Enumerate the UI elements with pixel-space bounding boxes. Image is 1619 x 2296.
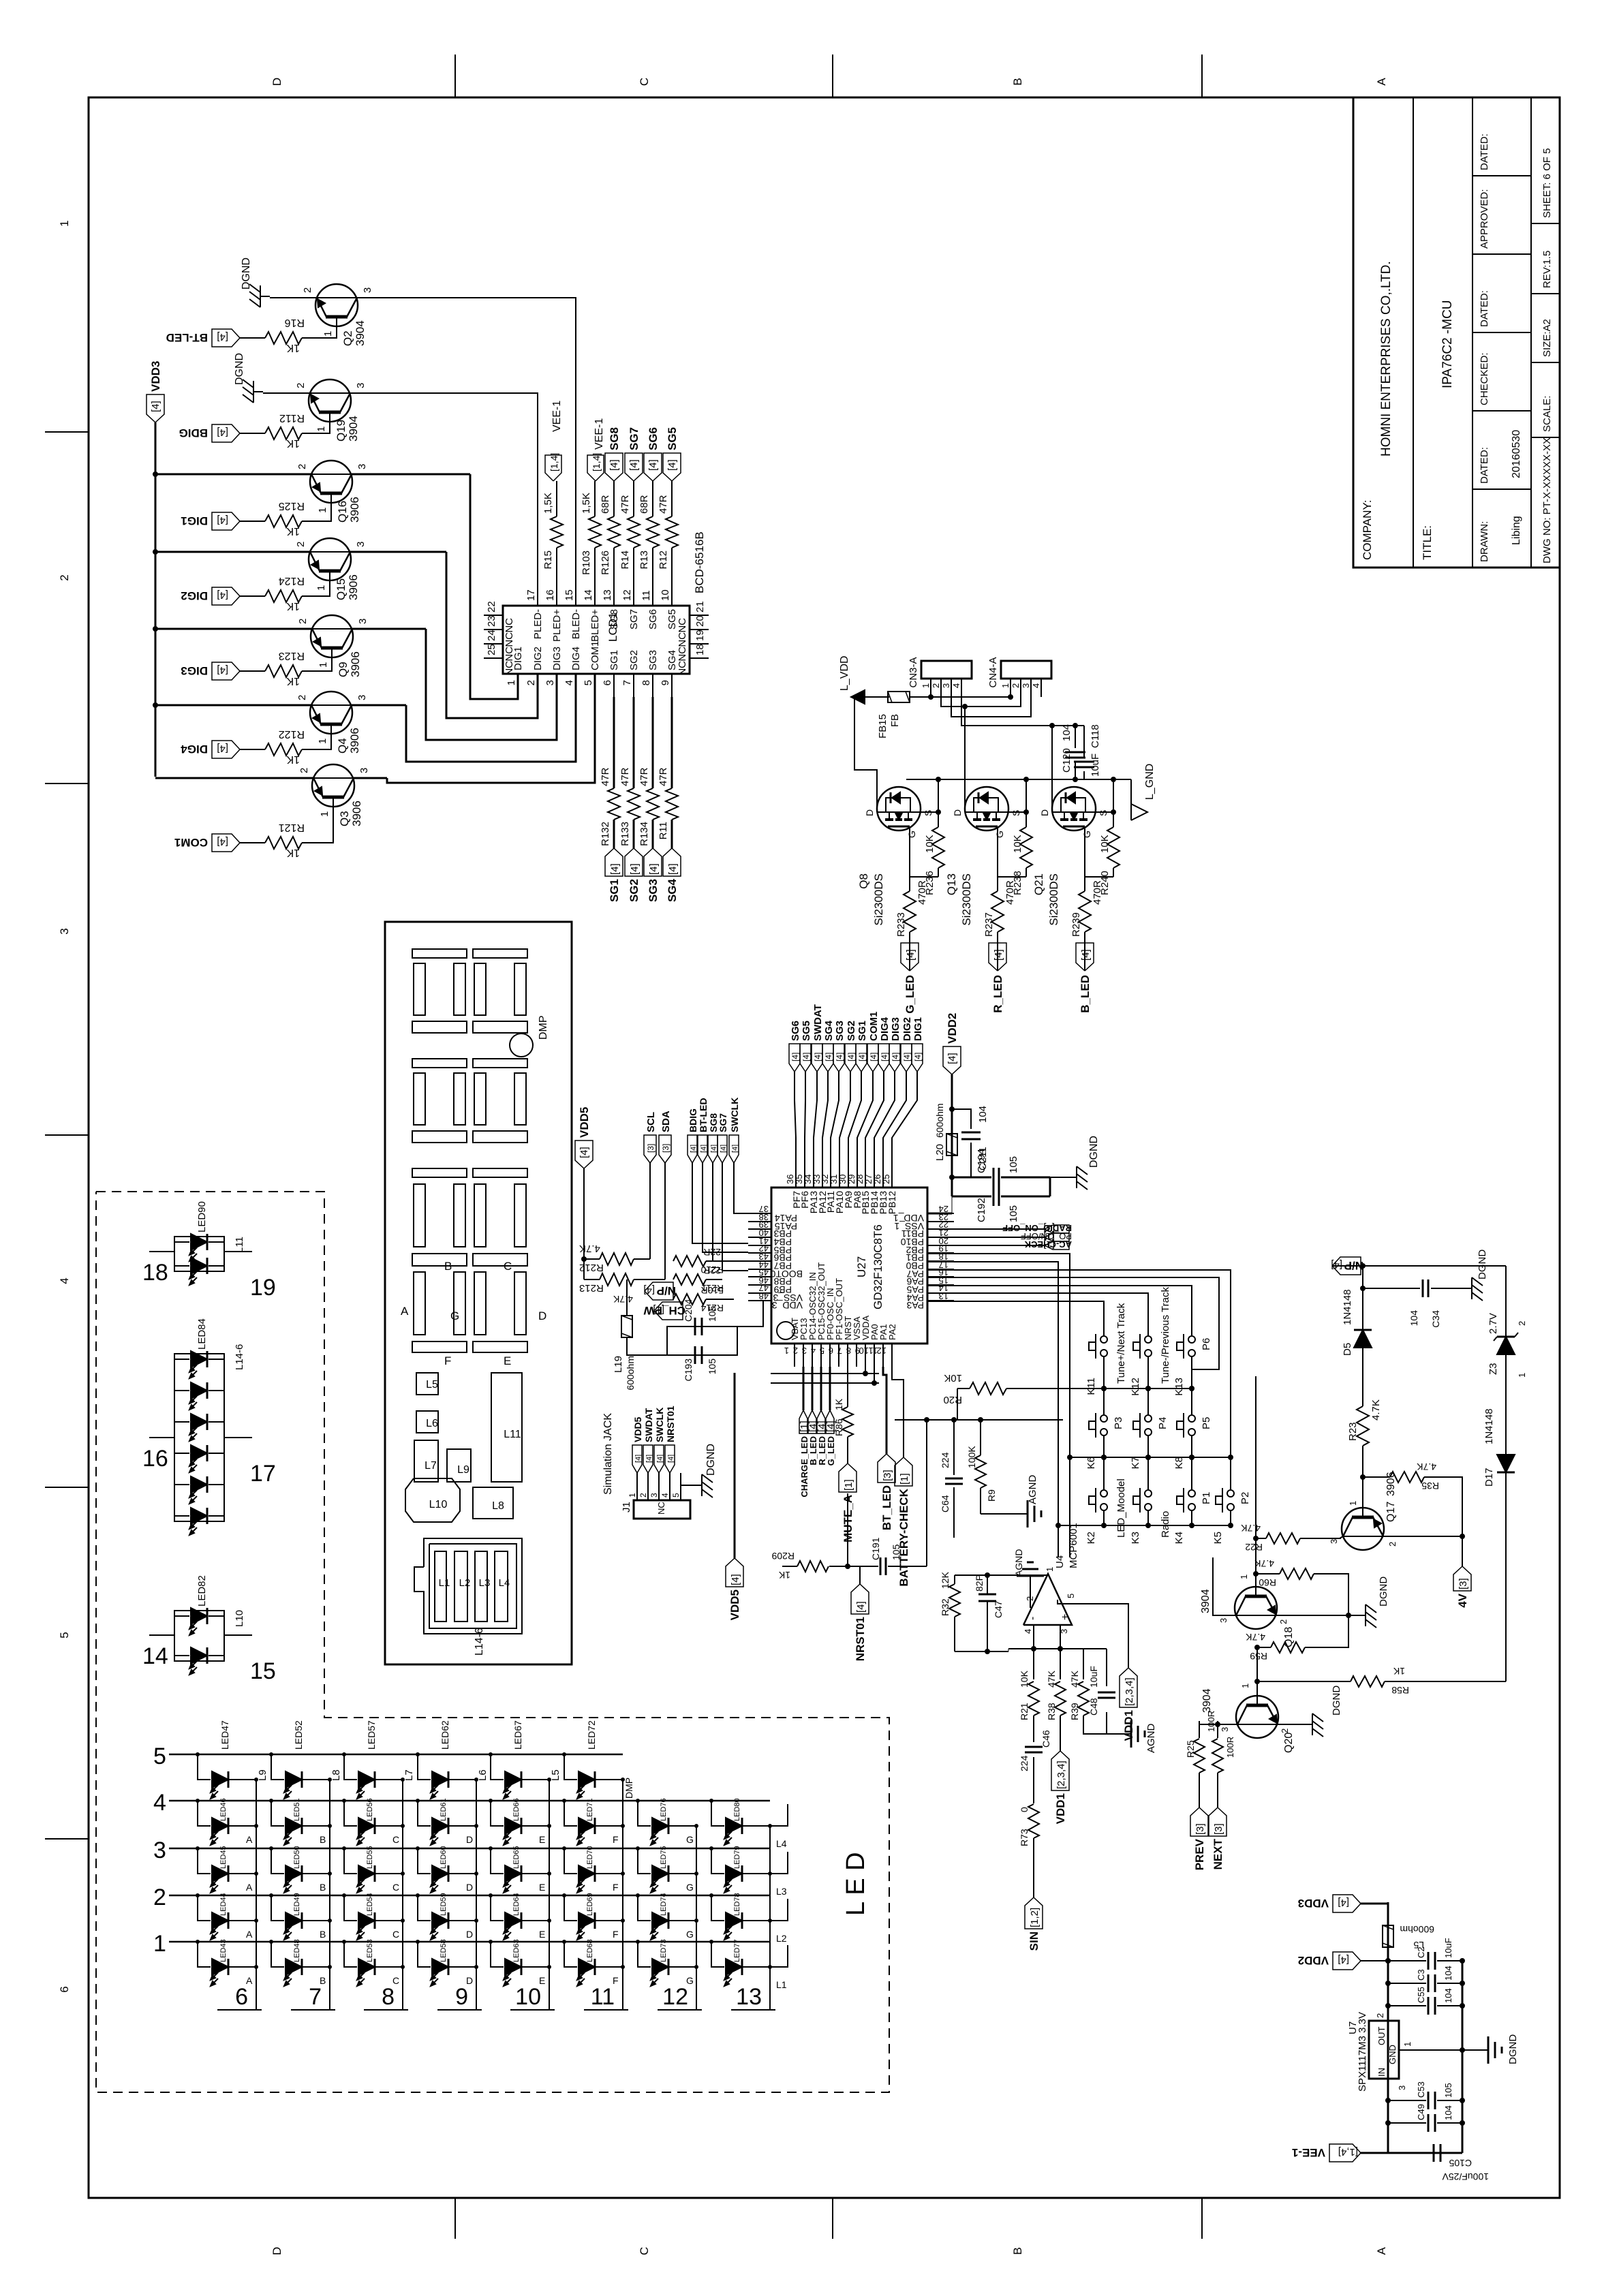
svg-text:DIG4: DIG4 xyxy=(879,1017,891,1041)
port SWCLK at J1 xyxy=(654,1445,664,1473)
CN3-A pin 4 xyxy=(961,679,962,697)
Q17 emitter wire and 4V port xyxy=(1383,1536,1462,1566)
U27 pin 26 PB13 xyxy=(882,1165,884,1188)
capacitor C105 100uF/25V xyxy=(1433,2144,1435,2162)
svg-text:PREV: PREV xyxy=(1193,1838,1206,1870)
svg-text:LED68: LED68 xyxy=(586,1939,594,1962)
capacitor C120 104 xyxy=(1075,762,1076,779)
svg-text:R_LED: R_LED xyxy=(991,975,1004,1013)
IC LCD1 BCD-6516B body xyxy=(503,606,690,674)
LED matrix cell diode col7 row2 xyxy=(636,1893,640,1897)
K8 wire to rail xyxy=(1191,1436,1192,1457)
zone ticks left edge xyxy=(454,2198,456,2239)
svg-text:DRAWN:: DRAWN: xyxy=(1479,521,1490,562)
svg-text:SG5: SG5 xyxy=(801,1021,812,1041)
wire SDA xyxy=(664,1163,666,1279)
CN4-A pin 1 xyxy=(1010,679,1011,697)
svg-text:[4]: [4] xyxy=(855,1601,867,1613)
svg-text:R38: R38 xyxy=(1046,1703,1057,1720)
svg-text:10K: 10K xyxy=(944,1372,962,1384)
capacitor C191 105 xyxy=(880,1557,882,1575)
svg-text:4: 4 xyxy=(1031,683,1041,688)
LED84 right wire xyxy=(224,1437,252,1438)
ferrite bead L20 600ohm xyxy=(946,1134,957,1155)
Q9 resistor-port wire xyxy=(240,670,265,672)
LED diode in LED90 xyxy=(174,1241,189,1243)
svg-text:DMP: DMP xyxy=(623,1778,634,1799)
svg-text:L1: L1 xyxy=(439,1577,450,1589)
svg-text:68R: 68R xyxy=(600,495,611,514)
title block row lines xyxy=(1413,97,1414,568)
svg-text:2: 2 xyxy=(295,542,307,547)
resistor R22 4.7K xyxy=(1256,1538,1266,1539)
port N/P right xyxy=(1332,1265,1363,1267)
svg-text:C3: C3 xyxy=(1416,1969,1426,1981)
LCD1 pin 10 SG5 xyxy=(671,583,673,606)
diode D17 1N4148 xyxy=(1497,1455,1515,1472)
ground L_GND triangle xyxy=(1131,804,1147,820)
svg-text:12: 12 xyxy=(662,1984,688,2010)
svg-text:DIG1: DIG1 xyxy=(912,1017,924,1041)
svg-text:F: F xyxy=(613,1975,619,1986)
svg-text:[3]: [3] xyxy=(1194,1823,1206,1835)
svg-text:2: 2 xyxy=(1375,2013,1385,2018)
LED matrix cell diode col3 row3 xyxy=(342,1846,346,1850)
matrix bottom stub 9 xyxy=(437,2009,482,2011)
svg-text:3: 3 xyxy=(1220,1727,1230,1732)
Q20 emitter to DGND xyxy=(1278,1724,1303,1725)
resistor R239 470R xyxy=(1084,877,1085,891)
J1 pin 5 xyxy=(680,1473,681,1500)
svg-text:600ohm: 600ohm xyxy=(934,1103,945,1138)
svg-text:DIG3: DIG3 xyxy=(890,1017,901,1041)
wire pin26 to port DIG2 xyxy=(883,1072,906,1165)
wire VDD3 to rail xyxy=(1361,1903,1388,1905)
LED matrix cell diode col7 row1 xyxy=(636,1940,640,1944)
svg-text:AGND: AGND xyxy=(1145,1723,1157,1753)
svg-text:[4]: [4] xyxy=(217,664,228,676)
resistor R125 1K xyxy=(265,515,302,527)
wire pin28 to port DIG4 xyxy=(865,1072,884,1165)
port G_LED xyxy=(826,1410,834,1433)
U27 pin 42 PB6 xyxy=(748,1252,771,1254)
svg-text:23: 23 xyxy=(486,615,497,627)
svg-text:[4]: [4] xyxy=(609,863,621,875)
switch K7 xyxy=(1133,1413,1152,1438)
wire L_VDD vertical xyxy=(865,696,889,698)
U27 pin 39 PB3 xyxy=(748,1228,771,1230)
Q21 drain wire xyxy=(1051,726,1053,812)
svg-text:G: G xyxy=(686,1882,694,1893)
U27 pin 36 PF7 xyxy=(795,1165,797,1188)
svg-text:P6: P6 xyxy=(1201,1338,1212,1350)
resistor R103 1,5K xyxy=(594,548,596,583)
wire pin33 to port SG4 xyxy=(822,1072,828,1165)
port VDD5 long rail xyxy=(726,1558,743,1587)
svg-text:DWG NO: PT-X-XXXXX-XX: DWG NO: PT-X-XXXXX-XX xyxy=(1541,437,1553,563)
svg-text:[4]: [4] xyxy=(217,514,228,526)
svg-text:LED48: LED48 xyxy=(293,1939,301,1962)
svg-text:2: 2 xyxy=(297,619,309,624)
svg-text:SG6: SG6 xyxy=(647,427,660,450)
svg-text:[4]: [4] xyxy=(217,331,228,343)
wire pin24 VDD rail xyxy=(927,1213,952,1215)
LCD1 pin 1 DIG1 xyxy=(517,674,519,697)
svg-text:1K: 1K xyxy=(286,600,300,612)
transistor Q9 3906 xyxy=(311,615,353,657)
LCD1 pin 20 NC xyxy=(690,629,709,630)
svg-text:SPX1117M3 3.3V: SPX1117M3 3.3V xyxy=(1357,2012,1368,2092)
svg-text:P5: P5 xyxy=(1201,1417,1212,1429)
matrix col8 step wire xyxy=(770,1804,788,1826)
svg-text:D: D xyxy=(466,1929,473,1940)
LED matrix column rail 8 xyxy=(769,1826,771,2010)
svg-text:F: F xyxy=(613,1882,619,1893)
svg-text:C49: C49 xyxy=(1416,2104,1426,2120)
capacitor C3 104 xyxy=(1388,1983,1426,1984)
resistor R27 100R xyxy=(1217,1721,1218,1738)
Q2 emitter wire to DGND xyxy=(270,297,317,298)
svg-text:LED64: LED64 xyxy=(512,1893,521,1916)
svg-text:48: 48 xyxy=(759,1291,769,1301)
transistor Q15 3906 xyxy=(309,538,351,580)
wire PA6 feed to K5 row xyxy=(927,1270,1231,1490)
resistor R16 1K xyxy=(265,332,302,344)
svg-text:C55: C55 xyxy=(1416,1987,1426,2003)
port DIG1 xyxy=(912,1044,923,1072)
battery icon outline xyxy=(414,1538,522,1634)
LED matrix cell diode col3 row5 xyxy=(342,1752,346,1756)
svg-text:7: 7 xyxy=(309,1984,322,2010)
svg-text:2: 2 xyxy=(1517,1321,1527,1326)
svg-text:D: D xyxy=(466,1882,473,1893)
svg-text:NC: NC xyxy=(504,618,515,633)
svg-text:0: 0 xyxy=(1019,1807,1030,1812)
svg-text:104: 104 xyxy=(1443,1966,1453,1981)
svg-text:224: 224 xyxy=(1019,1755,1030,1771)
wire R214 bottom xyxy=(706,1299,734,1300)
svg-text:BCD-6516B: BCD-6516B xyxy=(693,531,706,593)
U27 pin1 indicator circle xyxy=(777,1322,795,1339)
wire pin34 to port SWDAT xyxy=(814,1072,817,1165)
svg-text:1: 1 xyxy=(784,1346,789,1356)
svg-text:[4]: [4] xyxy=(643,1284,655,1296)
svg-text:LED77: LED77 xyxy=(733,1939,741,1962)
wire MUTE_A to R209 node xyxy=(847,1493,848,1566)
port MUTE_A xyxy=(839,1463,857,1492)
wire pin to PO_ON/OFF xyxy=(927,1237,1045,1238)
LED matrix cell diode col3 row1 xyxy=(342,1940,346,1944)
resistor R238 10K xyxy=(1026,868,1027,877)
resistor R35 4.7K xyxy=(1363,1476,1390,1478)
switch K4 xyxy=(1177,1488,1195,1512)
matrix col8 step wire xyxy=(770,1899,788,1921)
LCD1 pin 16 PLED+ xyxy=(556,583,557,606)
svg-text:100R: 100R xyxy=(1225,1737,1235,1758)
svg-text:1: 1 xyxy=(1000,683,1011,688)
wire VDD5 rail xyxy=(583,1168,585,1279)
matrix col8 step wire xyxy=(770,1945,788,1967)
svg-text:B: B xyxy=(1011,78,1024,85)
svg-text:2: 2 xyxy=(793,1346,798,1356)
port NEXT xyxy=(1209,1808,1227,1836)
wire CN pin4 bus xyxy=(961,679,1084,726)
svg-text:B: B xyxy=(1011,2247,1024,2254)
svg-text:SWDAT: SWDAT xyxy=(812,1004,824,1041)
CN4-A pin 3 xyxy=(1030,679,1032,697)
svg-text:DIG4: DIG4 xyxy=(181,743,208,756)
capacitor C55 104 xyxy=(1388,2005,1426,2006)
port DIG3 xyxy=(212,662,240,680)
capacitor C53 105 xyxy=(1388,2100,1426,2101)
svg-text:LED46: LED46 xyxy=(219,1798,228,1821)
op-amp U4 MCP6001 xyxy=(1023,1574,1072,1625)
wire pin32 to port SG3 xyxy=(831,1072,839,1165)
port VDD2 at U7 xyxy=(1333,1952,1361,1970)
U27 pin 16 PA6 xyxy=(927,1276,954,1277)
wire PA3 feed to K11 row xyxy=(927,1301,1104,1336)
U27 pin 47 VSS_3 xyxy=(748,1292,771,1294)
matrix bottom stub 6 xyxy=(217,2009,262,2011)
svg-text:LED84: LED84 xyxy=(196,1318,208,1350)
svg-text:[4]: [4] xyxy=(825,1421,837,1432)
svg-text:Si2300DS: Si2300DS xyxy=(872,873,885,926)
svg-text:2: 2 xyxy=(525,680,537,685)
svg-text:E: E xyxy=(539,1975,545,1986)
LCD1 pin 13 SG8 xyxy=(613,583,615,606)
svg-text:R35: R35 xyxy=(1421,1480,1439,1491)
svg-text:Q20: Q20 xyxy=(1283,1733,1295,1753)
LCD1 pin 21 NC xyxy=(690,615,709,616)
7seg reference digit segments xyxy=(473,1168,527,1177)
svg-text:IPA76C2 -MCU: IPA76C2 -MCU xyxy=(1440,300,1455,388)
port DIG2 xyxy=(212,587,240,605)
LED matrix row wires xyxy=(169,1754,623,1756)
svg-text:3: 3 xyxy=(1397,2085,1407,2090)
Q3 collector wire to LCD1 xyxy=(354,777,387,779)
wire caps common to DGND xyxy=(1049,1177,1051,1196)
U4 input wires xyxy=(1033,1625,1034,1649)
port SG3 xyxy=(644,848,662,876)
port DIG1 xyxy=(212,512,240,530)
svg-text:N/P: N/P xyxy=(657,1284,676,1297)
svg-text:104: 104 xyxy=(977,1106,989,1123)
port CH_PW xyxy=(654,1302,683,1320)
svg-text:R233: R233 xyxy=(895,912,907,937)
svg-text:R60: R60 xyxy=(1259,1577,1276,1588)
Q9 collector wire to LCD1 xyxy=(352,628,426,630)
LED matrix cell diode col1 row2 xyxy=(196,1893,200,1897)
LED82 left wire xyxy=(149,1634,174,1636)
resistor R214 510R xyxy=(673,1294,706,1305)
svg-text:4.7K: 4.7K xyxy=(1246,1632,1265,1643)
svg-text:DGND: DGND xyxy=(241,258,252,290)
svg-text:SG2: SG2 xyxy=(846,1021,857,1041)
port VDD5 at J1 xyxy=(632,1445,642,1473)
svg-text:224: 224 xyxy=(940,1452,951,1468)
wire to port G_LED xyxy=(829,1367,831,1410)
LED cluster LED82 box xyxy=(174,1611,224,1661)
port BATTERY-CHECK xyxy=(895,1457,912,1486)
switch K5 xyxy=(1216,1488,1234,1512)
svg-text:U27: U27 xyxy=(855,1256,868,1277)
svg-text:18: 18 xyxy=(142,1260,168,1286)
svg-text:SIN: SIN xyxy=(1028,1932,1040,1951)
LED matrix cell diode col8 row2 xyxy=(709,1893,713,1897)
svg-text:2: 2 xyxy=(296,695,308,700)
wire to L_GND xyxy=(1130,779,1132,812)
svg-text:104: 104 xyxy=(1443,1988,1453,2003)
svg-text:LED71: LED71 xyxy=(586,1798,594,1821)
connector CN4-A xyxy=(1001,661,1051,679)
svg-text:1: 1 xyxy=(1239,1574,1249,1579)
svg-text:R15: R15 xyxy=(542,550,554,570)
svg-text:[4]: [4] xyxy=(647,459,659,471)
U27 pin 43 PB7 xyxy=(748,1260,771,1262)
Q19 collector wire to LCD1 pin17 xyxy=(350,393,538,606)
U27 pin 19 PB1 xyxy=(927,1252,954,1254)
wire to port B_LED xyxy=(812,1367,814,1410)
svg-text:DIG3: DIG3 xyxy=(551,647,563,670)
LCD1 pin 11 SG6 xyxy=(652,583,653,606)
svg-text:[4]: [4] xyxy=(993,949,1004,961)
LED matrix cell diode col5 row2 xyxy=(489,1893,493,1897)
U4 pin5 wire xyxy=(1058,1600,1128,1668)
U7 gnd rail xyxy=(1462,1961,1464,2153)
wire R9 to AGND xyxy=(981,1513,1019,1515)
svg-text:[1,4]: [1,4] xyxy=(549,453,559,471)
svg-text:VDD_3: VDD_3 xyxy=(772,1300,803,1311)
svg-text:470R: 470R xyxy=(916,880,928,905)
svg-text:C46: C46 xyxy=(1040,1730,1051,1748)
LED90 right wire xyxy=(224,1251,252,1252)
svg-text:K13: K13 xyxy=(1173,1378,1185,1396)
svg-text:K4: K4 xyxy=(1173,1532,1185,1544)
svg-text:A: A xyxy=(246,1975,253,1986)
LCD1 pin 3 DIG3 xyxy=(556,674,557,697)
svg-text:C: C xyxy=(638,78,651,86)
svg-text:R14: R14 xyxy=(619,550,631,570)
LED matrix cell diode col2 row3 xyxy=(269,1846,273,1850)
wire FB15 to CN pins xyxy=(910,696,1011,698)
svg-text:LED56: LED56 xyxy=(366,1798,374,1821)
LED matrix column rail 5 xyxy=(549,1780,550,2010)
svg-text:DATED:: DATED: xyxy=(1479,447,1490,484)
switch K3 xyxy=(1133,1488,1152,1512)
svg-text:1,5K: 1,5K xyxy=(542,493,554,514)
port NRST01 at J1 xyxy=(665,1445,675,1473)
svg-text:2: 2 xyxy=(931,683,941,688)
svg-text:1: 1 xyxy=(506,680,517,685)
LED90 left wire xyxy=(149,1251,174,1252)
svg-text:105: 105 xyxy=(1008,1205,1019,1222)
mosfet Q21 Si2300DS xyxy=(1052,787,1096,831)
capacitor C118 10uF xyxy=(1083,771,1085,779)
svg-text:3: 3 xyxy=(358,768,370,773)
svg-text:D: D xyxy=(864,809,875,816)
svg-text:C48: C48 xyxy=(1088,1698,1099,1716)
svg-text:SG7: SG7 xyxy=(628,609,640,630)
svg-text:[4]: [4] xyxy=(667,863,679,875)
port DIG4 xyxy=(212,741,240,758)
port PO_ON/OFF xyxy=(1045,1233,1069,1241)
resistor R123 1K xyxy=(265,665,302,677)
svg-text:[4]: [4] xyxy=(645,1455,653,1463)
wire pin25 to port DIG1 xyxy=(892,1072,917,1165)
svg-text:R13: R13 xyxy=(638,550,650,570)
svg-text:1K: 1K xyxy=(286,675,300,687)
resistor R60 4.7K xyxy=(1256,1573,1280,1574)
svg-text:[4]: [4] xyxy=(824,1053,833,1061)
svg-text:6: 6 xyxy=(829,1346,833,1356)
svg-text:LED76: LED76 xyxy=(660,1798,668,1821)
svg-text:[4]: [4] xyxy=(634,1455,643,1463)
svg-text:600ohm: 600ohm xyxy=(625,1356,636,1391)
svg-text:C194: C194 xyxy=(976,1149,987,1173)
svg-text:1: 1 xyxy=(58,220,71,226)
svg-text:5: 5 xyxy=(671,1493,681,1498)
LCD1 pin 15 BLED- xyxy=(575,583,576,606)
svg-text:Q15: Q15 xyxy=(335,578,348,600)
U27 pin 32 PA11 xyxy=(830,1165,831,1188)
zener Z3 2.7V xyxy=(1505,1266,1507,1337)
Q2 base wire xyxy=(302,324,337,338)
svg-text:S: S xyxy=(1098,810,1109,816)
LED matrix cell diode col2 row1 xyxy=(269,1940,273,1944)
U27 pin 5 PF0-OSC_IN xyxy=(829,1344,831,1367)
svg-text:10: 10 xyxy=(515,1984,541,2010)
svg-text:L2: L2 xyxy=(459,1577,471,1589)
source rail wire xyxy=(906,779,1131,780)
wire C191 to bus xyxy=(926,1420,927,1566)
svg-text:[1]: [1] xyxy=(899,1473,910,1485)
svg-text:L3: L3 xyxy=(776,1886,787,1897)
svg-text:SIZE:A2: SIZE:A2 xyxy=(1541,319,1553,357)
svg-text:DGND: DGND xyxy=(1088,1136,1100,1168)
svg-text:A: A xyxy=(1375,78,1388,86)
title block bottom row cells xyxy=(1531,437,1560,438)
LED matrix cell diode col8 row1 xyxy=(709,1940,713,1944)
port BT_LED xyxy=(878,1454,895,1483)
svg-text:[4]: [4] xyxy=(628,459,640,471)
svg-text:C47: C47 xyxy=(993,1600,1004,1618)
LCD1 pin 8 SG3 xyxy=(652,674,653,697)
LED matrix cell diode col7 row3 xyxy=(636,1846,640,1850)
U27 pin 28 PB15 xyxy=(865,1165,866,1188)
wire pin31 to port SG2 xyxy=(839,1072,850,1165)
resistor R58 1K xyxy=(1257,1681,1351,1682)
resistor R126 68R xyxy=(613,548,615,583)
LED matrix cell diode col6 row3 xyxy=(562,1846,566,1850)
svg-text:D: D xyxy=(271,2247,283,2255)
ferrite bead L5 600ohm xyxy=(1383,1925,1393,1947)
K11 wire to rail xyxy=(1103,1356,1105,1389)
resistor R86 1K xyxy=(847,1367,848,1407)
svg-text:LED63: LED63 xyxy=(512,1939,521,1962)
svg-text:LED73: LED73 xyxy=(660,1939,668,1962)
svg-text:SG8: SG8 xyxy=(608,609,620,630)
svg-text:24: 24 xyxy=(486,630,497,641)
svg-text:LED_Moodel: LED_Moodel xyxy=(1115,1478,1127,1538)
svg-text:[4]: [4] xyxy=(801,1053,811,1061)
bus wire near VSSA xyxy=(771,1373,879,1374)
capacitor C193 105 xyxy=(694,1346,696,1364)
LED diode in LED90 xyxy=(174,1265,189,1267)
svg-text:470R: 470R xyxy=(1004,880,1016,905)
svg-text:1: 1 xyxy=(628,1493,637,1498)
svg-text:GD32F130C8T6: GD32F130C8T6 xyxy=(872,1224,884,1309)
LCD1 pin 19 NC xyxy=(690,643,709,645)
